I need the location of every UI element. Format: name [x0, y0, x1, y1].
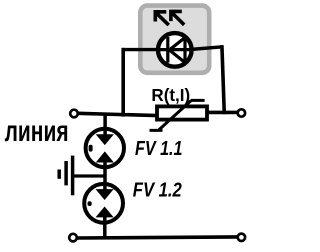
wire: LED right lead vertical down to output wire [222, 45, 224, 114]
FV1.2 bottom shaft [103, 216, 107, 224]
wire: bottom bus [77, 237, 238, 238]
LED diode triangle [169, 38, 185, 63]
wire: FV1.1 to FV1.2 [103, 161, 107, 191]
FV1.1 top shaft [103, 127, 107, 138]
svg-text:R(t,I): R(t,I) [151, 85, 190, 105]
ground bar medium [64, 161, 68, 185]
FV1.2 up arrowhead [97, 207, 113, 217]
terminal: bottom left [69, 234, 77, 242]
wire: LED left lead vertical down to line bus [121, 48, 125, 117]
terminal: line input (top left) [70, 110, 78, 118]
ground symbol wire [74, 174, 105, 177]
FV1.1 up arrowhead [97, 152, 113, 162]
svg-text:FV 1.2: FV 1.2 [133, 179, 183, 201]
wire: line bus from input terminal to resistor [78, 113, 158, 115]
wire: resistor to output terminal [206, 111, 239, 115]
optocoupler gray box [140, 6, 209, 73]
FV1.2 electrode dot [88, 201, 92, 206]
svg-text:линия: линия [5, 115, 69, 148]
LED light arrow 2 [171, 11, 184, 24]
wire: LED left lead horizontal [122, 48, 161, 51]
wire: LED right lead horizontal [190, 47, 223, 50]
FV1.1 electrode dot [89, 145, 93, 152]
FV1.2 top shaft [103, 182, 107, 193]
FV1.2 down arrowhead [97, 190, 113, 200]
wire through LED circle [159, 48, 192, 51]
LED light arrow 1 [155, 12, 168, 25]
terminal: output (top right) [238, 109, 245, 116]
FV1.1 bottom shaft [103, 161, 107, 169]
terminal: bottom right [238, 234, 245, 241]
LED circle body [158, 33, 192, 67]
FV1.1 down arrowhead [97, 135, 113, 145]
LED cathode bar [166, 37, 169, 63]
resistor R(t,I) body [157, 106, 207, 119]
resistor diagonal stroke with feet [150, 100, 205, 130]
ground bar short [57, 170, 61, 179]
ground bar long [71, 156, 75, 196]
wire: stem into FV1.1 [103, 114, 107, 138]
arrester FV1.2 circle [84, 184, 123, 223]
svg-text:FV 1.1: FV 1.1 [135, 138, 183, 160]
wire: FV1.2 to bottom bus [103, 216, 107, 238]
arrester FV1.1 circle [86, 129, 124, 167]
